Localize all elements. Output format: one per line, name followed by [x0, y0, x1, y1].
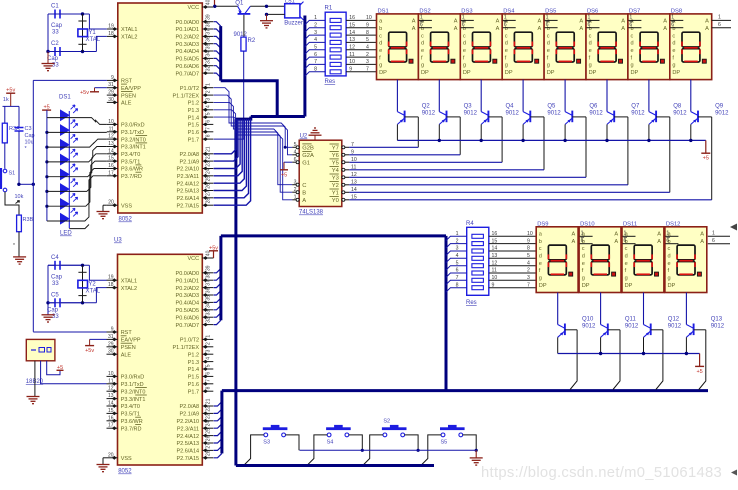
svg-text:28: 28: [205, 450, 211, 456]
svg-text:g: g: [625, 276, 628, 282]
svg-text:P3.6/WR: P3.6/WR: [121, 419, 143, 425]
svg-text:10: 10: [108, 119, 114, 125]
power +5v stub top: [214, 0, 216, 6]
switch S1: [3, 169, 7, 173]
ground crystal 1: [47, 52, 49, 64]
bus U3 P0 vertical channel: [219, 236, 222, 320]
svg-text:XTAL2: XTAL2: [121, 286, 137, 292]
wires R4 to DS9 segments: [489, 235, 536, 237]
wire crystal 2 bottom rail: [48, 302, 96, 304]
svg-text:S1: S1: [9, 171, 16, 177]
wire Q6 emitter to +5 rail: [564, 124, 566, 140]
wire Q9 base to U2 Y0: [711, 117, 713, 200]
svg-text:DS6: DS6: [587, 8, 598, 14]
svg-text:e: e: [668, 261, 671, 267]
svg-text:g: g: [668, 276, 671, 282]
svg-text:A: A: [579, 26, 583, 32]
svg-text:P3.0/RxD: P3.0/RxD: [121, 123, 145, 129]
svg-text:P2.7/A15: P2.7/A15: [176, 456, 199, 462]
svg-text:Q2: Q2: [422, 104, 431, 110]
svg-text:DP: DP: [631, 70, 639, 76]
pin 13 P3.3/INT1: [107, 146, 118, 148]
pin 6 P1.5: [202, 123, 213, 125]
display DS5 digit segments: [556, 32, 574, 47]
svg-text:29: 29: [108, 90, 114, 96]
svg-text:Q9: Q9: [715, 104, 724, 110]
svg-text:P0.2/AD2: P0.2/AD2: [176, 286, 200, 292]
svg-text:d: d: [582, 254, 585, 260]
svg-text:+5: +5: [703, 156, 709, 162]
svg-text:Cap: Cap: [47, 307, 59, 313]
svg-text:6: 6: [456, 268, 459, 274]
wire S5 left terminal to bus rail: [421, 435, 441, 466]
svg-text:d: d: [421, 41, 424, 47]
wire RST net vertical: [32, 80, 34, 331]
svg-text:c: c: [582, 246, 585, 252]
wire Q4 base to U2 Y5: [501, 117, 503, 162]
svg-text:Cap: Cap: [51, 274, 63, 280]
svg-text:P2.6/A14: P2.6/A14: [176, 196, 199, 202]
svg-text:ALE: ALE: [121, 101, 132, 107]
switch S2: [382, 427, 407, 430]
svg-text:e: e: [463, 48, 466, 54]
svg-text:6: 6: [629, 22, 632, 28]
svg-text:31: 31: [108, 82, 114, 88]
svg-text:ALE: ALE: [121, 352, 132, 358]
svg-text:e: e: [631, 48, 634, 54]
pin 9 RST: [107, 331, 118, 333]
pin 5 P1.4: [202, 368, 213, 370]
pin 21 P2.0/A8: [202, 153, 213, 155]
svg-text:Buzzer: Buzzer: [284, 21, 303, 27]
svg-text:9012: 9012: [673, 111, 687, 117]
wire S4 left terminal to bus rail: [307, 435, 327, 466]
svg-text:DS8: DS8: [671, 8, 682, 14]
svg-text:9: 9: [366, 22, 369, 28]
svg-text:8052: 8052: [118, 469, 132, 475]
svg-text:14: 14: [492, 246, 498, 252]
svg-text:S2: S2: [383, 418, 390, 424]
svg-text:4: 4: [527, 260, 530, 266]
svg-text:31: 31: [108, 334, 114, 340]
wire XTAL1 to U3: [89, 265, 106, 280]
svg-text:24: 24: [205, 421, 211, 427]
svg-text:5: 5: [205, 112, 211, 115]
wire S3 right terminal to ground line: [286, 435, 300, 450]
wires R1 to DS1 segments: [346, 19, 376, 21]
svg-text:23: 23: [205, 413, 211, 419]
svg-text:DS9: DS9: [537, 221, 548, 227]
pin 22 P2.1/A9: [202, 160, 213, 162]
svg-text:6: 6: [588, 22, 591, 28]
wire 18B20 GND pin: [34, 361, 36, 397]
pin 33 P0.6/AD6: [202, 65, 213, 67]
svg-text:DS3: DS3: [461, 8, 472, 14]
resistor R2: [243, 15, 245, 37]
svg-text:P2.1/A9: P2.1/A9: [180, 412, 200, 418]
svg-text:Cap: Cap: [47, 56, 59, 62]
svg-text:P3.4/T0: P3.4/T0: [121, 404, 140, 410]
svg-text:32: 32: [205, 66, 211, 72]
svg-text:d: d: [505, 41, 508, 47]
svg-text:3: 3: [205, 98, 211, 101]
svg-text:9012: 9012: [589, 111, 603, 117]
svg-text:6: 6: [205, 372, 211, 375]
pin 24 P2.3/A11: [202, 427, 213, 429]
wire P1.3 to B: [214, 110, 293, 192]
ground 18B20: [27, 396, 40, 398]
svg-text:1: 1: [504, 15, 507, 21]
svg-text:P0.3/AD3: P0.3/AD3: [176, 293, 200, 299]
svg-text:C1: C1: [51, 4, 59, 10]
pin 31 EA/VPP: [107, 87, 118, 89]
svg-text:1: 1: [546, 15, 549, 21]
display DS5 decimal point: [577, 59, 581, 63]
svg-text:g: g: [421, 63, 424, 69]
transistor Q9 9012: [690, 80, 692, 112]
svg-text:10k: 10k: [15, 194, 24, 200]
svg-text:13: 13: [349, 37, 355, 43]
svg-text:XTAL: XTAL: [86, 288, 101, 294]
svg-text:5: 5: [527, 253, 530, 259]
svg-text:C: C: [302, 183, 306, 189]
pin 20 VSS: [107, 204, 118, 206]
cursor mark right edge: [731, 470, 737, 476]
power +5v at U3 EA/VPP: [90, 338, 107, 340]
svg-text:e: e: [539, 261, 542, 267]
svg-text:1: 1: [581, 231, 584, 237]
crystal Y1: [82, 14, 84, 52]
svg-text:P3.7/RD: P3.7/RD: [121, 174, 142, 180]
svg-text:11: 11: [349, 52, 354, 58]
pin 9 Y6 of U2: [342, 154, 350, 156]
svg-text:XTAL2: XTAL2: [121, 35, 137, 41]
display DS9 decimal point: [569, 272, 573, 276]
svg-text:P0.5/AD5: P0.5/AD5: [176, 308, 200, 314]
svg-text:Y6: Y6: [332, 153, 339, 159]
svg-text:P1.7: P1.7: [188, 389, 199, 395]
svg-text:1: 1: [314, 15, 317, 21]
display DS6 digit segments: [598, 32, 616, 47]
pin 21 P2.0/A8: [202, 405, 213, 407]
wire +5 rail row 2: [558, 353, 700, 355]
svg-text:2: 2: [456, 238, 459, 244]
svg-text:PSEN: PSEN: [121, 93, 136, 99]
svg-text:26: 26: [205, 183, 211, 189]
ground U1 VSS: [103, 204, 107, 206]
svg-text:+5: +5: [43, 105, 49, 111]
bus U1 P2 entries: [214, 119, 236, 154]
svg-text:27: 27: [205, 443, 211, 449]
svg-text:R1: R1: [325, 6, 333, 12]
svg-text:Q4: Q4: [506, 104, 515, 110]
display DS10 digit segments: [591, 245, 609, 260]
transistor Q3 9012: [438, 80, 440, 112]
svg-text:DP: DP: [463, 70, 471, 76]
wire Q1 collector to buzzer: [250, 5, 284, 7]
pin 8 P1.7: [202, 390, 213, 392]
svg-text:19: 19: [108, 24, 114, 30]
display DS2 body: [418, 14, 460, 80]
svg-text:4: 4: [314, 37, 317, 43]
svg-text:3: 3: [294, 180, 297, 186]
svg-text:R4: R4: [466, 221, 474, 227]
svg-text:A: A: [538, 26, 542, 32]
svg-text:3: 3: [456, 246, 459, 252]
svg-text:P2.6/A14: P2.6/A14: [176, 449, 199, 455]
svg-text:12: 12: [492, 260, 498, 266]
display DS2 digit segments: [431, 32, 449, 47]
display DS1 body: [377, 14, 419, 80]
bus U1 P0 entries: [214, 22, 221, 26]
wire LED cathode chain: [68, 111, 70, 228]
pin 10 Y5 of U2: [342, 161, 350, 163]
svg-text:1: 1: [624, 231, 627, 237]
svg-text:Y4: Y4: [332, 168, 340, 174]
svg-text:P1.6: P1.6: [188, 382, 199, 388]
wires linking display anode pins row 2: [580, 235, 593, 237]
svg-text:Q5: Q5: [547, 104, 556, 110]
svg-text:6: 6: [462, 22, 465, 28]
display DS6 decimal point: [619, 59, 623, 63]
pin 24 P2.3/A11: [202, 175, 213, 177]
pin 40 VCC: [202, 257, 213, 259]
pin 39 P0.0/AD0: [202, 272, 213, 274]
svg-text:5: 5: [366, 37, 369, 43]
pin 17 P3.7/RD: [107, 427, 118, 429]
svg-text:P0.1/AD1: P0.1/AD1: [176, 278, 200, 284]
svg-text:21: 21: [205, 398, 211, 404]
display DS5 body: [544, 14, 586, 80]
svg-text:A: A: [663, 26, 667, 32]
wire Q10 base to bus: [570, 330, 577, 390]
svg-text:4: 4: [456, 253, 459, 259]
pin 8 P1.7: [202, 138, 213, 140]
svg-text:3: 3: [366, 59, 369, 65]
svg-text:EA/VPP: EA/VPP: [121, 338, 141, 344]
svg-text:A: A: [302, 198, 306, 204]
svg-text:36: 36: [205, 287, 211, 293]
svg-text:1: 1: [666, 231, 669, 237]
display DS4 pin labels: [505, 19, 542, 76]
display DS12 decimal point: [697, 272, 701, 276]
svg-text:A: A: [538, 19, 542, 25]
svg-text:P0.3/AD3: P0.3/AD3: [176, 42, 200, 48]
wire Q13 emitter to +5 rail: [685, 337, 687, 353]
display DS2 decimal point: [451, 59, 455, 63]
svg-text:DP: DP: [505, 70, 513, 76]
svg-text:26: 26: [205, 435, 211, 441]
svg-text:7: 7: [366, 67, 369, 73]
display DS1 digit segments: [389, 32, 407, 47]
svg-text:A: A: [614, 232, 618, 238]
wire crystal 2 top rail: [48, 264, 89, 266]
display DS11 pin labels: [625, 232, 662, 289]
svg-text:P3.7/RD: P3.7/RD: [121, 426, 142, 432]
pin 1 P1.0/T2: [202, 338, 213, 340]
display DS11 digit segments: [634, 245, 652, 260]
svg-text:e: e: [582, 261, 585, 267]
svg-text:RST: RST: [121, 330, 133, 336]
pin 33 P0.6/AD6: [202, 316, 213, 318]
pin 4 G2A of U2: [292, 154, 299, 156]
pin 20 VSS: [107, 457, 118, 459]
svg-text:29: 29: [108, 341, 114, 347]
bus jog to lower vertical: [236, 117, 251, 120]
display DS4 body: [502, 14, 544, 80]
svg-text:9: 9: [349, 67, 352, 73]
pin 4 P1.3: [202, 109, 213, 111]
svg-text:9012: 9012: [547, 111, 561, 117]
svg-text:3: 3: [205, 349, 211, 352]
svg-text:U2: U2: [300, 134, 308, 140]
svg-text:c: c: [672, 33, 675, 39]
svg-text:+5v: +5v: [6, 88, 15, 94]
svg-text:10: 10: [108, 371, 114, 377]
svg-text:12: 12: [349, 45, 355, 51]
bus R4 channel vertical: [445, 236, 448, 391]
wire P1.1 to G2A: [214, 95, 293, 155]
svg-text:Q3: Q3: [464, 104, 473, 110]
svg-text:2: 2: [527, 268, 530, 274]
pin 13 Y2 of U2: [342, 184, 350, 186]
svg-text:9012: 9012: [625, 324, 639, 330]
IC U3 8052 microcontroller body: [118, 254, 203, 465]
svg-text:Cap: Cap: [51, 23, 63, 29]
svg-text:EA/VPP: EA/VPP: [121, 86, 141, 92]
svg-text:PSEN: PSEN: [121, 345, 136, 351]
svg-text:P3.5/T1: P3.5/T1: [121, 159, 140, 165]
LED 2 of DS1: [45, 131, 48, 134]
svg-text:1: 1: [718, 15, 721, 21]
svg-text:g: g: [539, 276, 542, 282]
svg-text:P2.7/A15: P2.7/A15: [176, 203, 199, 209]
svg-text:7: 7: [314, 59, 317, 65]
transistor Q4 9012: [480, 80, 482, 112]
pin 32 P0.7/AD7: [202, 324, 213, 326]
svg-text:c: c: [589, 33, 592, 39]
svg-text:33: 33: [52, 30, 59, 36]
svg-text:6: 6: [666, 238, 669, 244]
svg-text:DP: DP: [582, 283, 590, 289]
wires LED rows to P3 harness: [47, 118, 107, 125]
svg-text:25: 25: [205, 176, 211, 182]
pin 10 P3.0/RxD: [107, 123, 118, 125]
wire Q5 emitter to +5 rail: [522, 124, 524, 140]
display DS7 digit segments: [640, 32, 658, 47]
svg-text:P1.0/T2: P1.0/T2: [180, 86, 199, 92]
svg-text:g: g: [547, 63, 550, 69]
bus long vertical to bottom switch rail: [234, 119, 237, 465]
pin 26 P2.5/A13: [202, 190, 213, 192]
pin 32 P0.7/AD7: [202, 72, 213, 74]
svg-text:A: A: [663, 19, 667, 25]
display DS7 body: [628, 14, 670, 80]
svg-text:9: 9: [111, 75, 114, 81]
svg-text:25: 25: [205, 428, 211, 434]
wire 18B20 VDD to +5: [47, 361, 60, 375]
svg-text:b: b: [539, 239, 542, 245]
svg-text:A: A: [412, 19, 416, 25]
svg-text:15: 15: [108, 156, 114, 162]
svg-text:C3: C3: [25, 126, 32, 132]
pin 38 P0.1/AD1: [202, 279, 213, 281]
svg-text:12: 12: [108, 134, 114, 140]
pin 4 P1.3: [202, 361, 213, 363]
wire crystal top rail: [48, 13, 89, 15]
svg-text:A: A: [454, 26, 458, 32]
svg-text:8: 8: [205, 386, 211, 389]
svg-text:9: 9: [527, 238, 530, 244]
svg-text:11: 11: [109, 126, 114, 132]
svg-text:DS4: DS4: [503, 8, 515, 14]
svg-text:d: d: [463, 41, 466, 47]
pin 2 B of U2: [292, 191, 299, 193]
display DS8 decimal point: [702, 59, 706, 63]
svg-text:12: 12: [108, 386, 114, 392]
svg-text:28: 28: [205, 198, 211, 204]
svg-text:Q6: Q6: [589, 104, 598, 110]
pin 22 P2.1/A9: [202, 412, 213, 414]
svg-text:1: 1: [712, 231, 715, 237]
pin 34 P0.5/AD5: [202, 309, 213, 311]
pin 11 P3.1/TxD: [107, 383, 118, 385]
svg-text:P0.6/AD6: P0.6/AD6: [176, 64, 200, 70]
svg-text:10u: 10u: [25, 140, 34, 146]
svg-text:40: 40: [205, 0, 211, 5]
svg-text:2: 2: [366, 52, 369, 58]
svg-text:e: e: [547, 48, 550, 54]
pin 36 P0.3/AD3: [202, 294, 213, 296]
wire buzzer to ground: [267, 13, 285, 15]
pin 38 P0.1/AD1: [202, 28, 213, 30]
svg-text:A: A: [657, 239, 661, 245]
svg-text:e: e: [625, 261, 628, 267]
IC U1 8052 microcontroller body: [118, 3, 203, 213]
wire switch common to ground: [300, 449, 477, 451]
pin 3 C of U2: [292, 184, 299, 186]
pin 15 Y0 of U2: [342, 199, 350, 201]
svg-text:DS1: DS1: [59, 95, 71, 101]
pin 31 EA/VPP: [107, 338, 118, 340]
svg-text:8052: 8052: [119, 217, 133, 223]
capacitor C4: [48, 264, 55, 266]
display DS10 pin labels: [582, 232, 619, 289]
svg-text:Y1: Y1: [88, 30, 96, 36]
wire 18B20 DQ to U3 P3.1: [41, 361, 107, 384]
wire Q8 emitter to +5 rail: [648, 124, 650, 140]
wire Q2 base to U2 Y7: [417, 117, 419, 147]
svg-text:R3B: R3B: [23, 217, 34, 223]
bus P0 horizontal to R1 feeder: [221, 81, 278, 117]
wire Q7 base to U2 Y2: [627, 117, 629, 185]
LED 1 of DS1: [60, 110, 69, 121]
display DS3 digit segments: [473, 32, 491, 47]
bus U3 P2 vertical channel: [220, 391, 223, 454]
svg-text:S4: S4: [327, 439, 334, 445]
pin 16 P3.6/WR: [107, 420, 118, 422]
svg-text:35: 35: [205, 43, 211, 49]
svg-text:5: 5: [205, 364, 211, 367]
svg-text:DS12: DS12: [666, 221, 681, 227]
svg-text:15: 15: [349, 22, 355, 28]
svg-text:DP: DP: [379, 70, 387, 76]
svg-text:6: 6: [671, 22, 674, 28]
svg-text:A: A: [700, 232, 704, 238]
display DS7 pin labels: [631, 19, 668, 76]
bus U3 P2 entries: [214, 402, 222, 406]
pin 6 G1 of U2: [292, 161, 299, 163]
